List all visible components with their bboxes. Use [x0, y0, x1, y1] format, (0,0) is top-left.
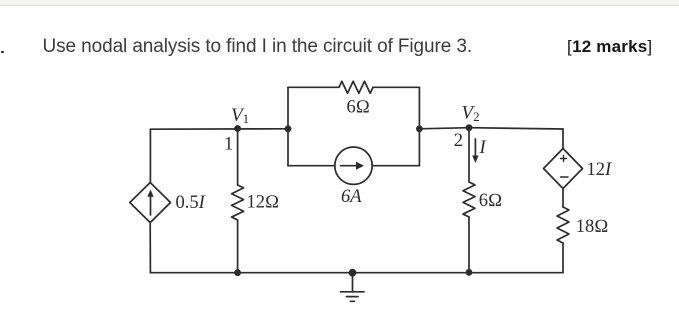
- svg-text:6Ω: 6Ω: [347, 98, 370, 118]
- current source arrow: [341, 165, 359, 167]
- right branch top wire: [562, 129, 564, 149]
- wire box top edge right of 6-ohm: [373, 86, 419, 88]
- wire box left edge lower: [287, 129, 289, 166]
- node ground junction dot: [349, 269, 357, 277]
- wire V1 down to 12ohm: [237, 129, 239, 186]
- svg-text:6A: 6A: [341, 187, 362, 207]
- resistor R 6ohm right: [463, 182, 475, 217]
- resistor R 12ohm: [232, 185, 244, 220]
- node V2 junction dot: [466, 124, 473, 131]
- left branch upper wire: [149, 129, 151, 182]
- wire box right edge: [418, 87, 420, 165]
- wire box bottom right of source: [372, 165, 419, 167]
- dependent voltage source 12I diamond: [544, 149, 583, 189]
- svg-text:18Ω: 18Ω: [576, 217, 609, 237]
- minus sign in 12I source: [561, 176, 569, 178]
- bottom wire: [150, 272, 563, 274]
- wire box-right to V2: [419, 128, 469, 129]
- resistor R 6ohm horizontal: [339, 81, 373, 93]
- svg-text:12I: 12I: [587, 160, 613, 180]
- current I arrow at V2: [474, 139, 476, 157]
- wire 6ohm right to bottom: [468, 217, 470, 272]
- wire 12ohm to bottom: [237, 220, 239, 273]
- wire 12I to 18ohm: [562, 189, 564, 208]
- wire V2 down to 6ohm: [468, 128, 470, 182]
- plus sign in 12I source: [561, 156, 567, 162]
- svg-text:I: I: [479, 138, 487, 158]
- wire 18ohm to bottom: [562, 243, 564, 273]
- 0.5I source arrow: [150, 196, 152, 215]
- node box-left junction dot: [285, 125, 292, 132]
- svg-text:12Ω: 12Ω: [247, 193, 280, 213]
- left branch lower wire: [149, 223, 151, 273]
- svg-text:0.5I: 0.5I: [176, 193, 206, 213]
- dependent current source 0.5I diamond: [130, 183, 171, 223]
- node 12ohm-bottom junction dot: [234, 269, 241, 276]
- wire box bottom left of source: [288, 165, 335, 167]
- wire top-left horizontal (left branch to V1 to box): [150, 128, 288, 130]
- wire box top edge left of 6-ohm: [288, 86, 339, 88]
- svg-text:V1: V1: [231, 105, 249, 126]
- svg-text:6Ω: 6Ω: [479, 191, 502, 211]
- node box-right junction dot: [416, 125, 423, 132]
- node V1 junction dot: [234, 125, 241, 132]
- current source 6A circle: [335, 147, 372, 184]
- wire V1-box-left continues to box: [287, 87, 289, 129]
- svg-text:2: 2: [454, 131, 463, 151]
- ground symbol: [352, 273, 354, 292]
- svg-text:V2: V2: [462, 103, 480, 125]
- wire V2 to right branch: [469, 128, 563, 129]
- resistor R 18ohm: [557, 207, 569, 243]
- node 6ohm-bottom junction dot: [466, 269, 473, 276]
- svg-text:1: 1: [224, 135, 233, 155]
